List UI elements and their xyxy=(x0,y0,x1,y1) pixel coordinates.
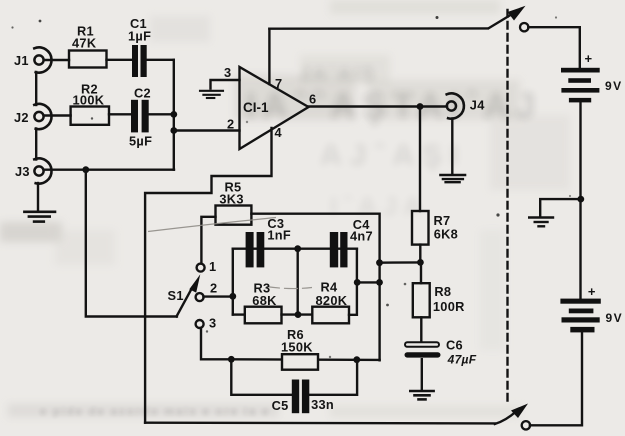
node pin2 junction xyxy=(170,127,177,134)
wire J2 to R2 xyxy=(44,114,71,116)
svg-text:1: 1 xyxy=(209,259,216,274)
wire link J1-J2 sleeve xyxy=(35,72,37,105)
svg-text:47µF: 47µF xyxy=(447,353,477,367)
wire junction to R8 xyxy=(420,262,422,283)
wire link J2-J3 sleeve xyxy=(35,129,37,160)
capacitor C2 xyxy=(131,100,149,133)
svg-text:100R: 100R xyxy=(433,299,465,314)
wire midpoint to ground xyxy=(540,199,581,216)
scan specks xyxy=(11,16,571,358)
dashed linkage line xyxy=(506,10,508,401)
node R6 left junction xyxy=(228,356,235,363)
scan crease artifact xyxy=(148,218,312,289)
wire node C to feedback rail xyxy=(357,281,379,283)
wire C1 to input node xyxy=(147,59,174,61)
wire S1 contact 3 down xyxy=(201,328,231,360)
svg-text:4: 4 xyxy=(275,125,283,140)
node R7/R8 junction xyxy=(417,259,424,266)
switch S2a arm xyxy=(489,6,528,32)
svg-text:1µF: 1µF xyxy=(128,29,151,44)
capacitor C5 xyxy=(292,380,310,414)
svg-text:C5: C5 xyxy=(272,398,289,413)
svg-text:3: 3 xyxy=(224,65,231,80)
svg-text:S1: S1 xyxy=(168,288,184,303)
wire R2 to C2 xyxy=(109,113,131,115)
switch S1 contact 2 xyxy=(196,293,204,301)
node battery midpoint xyxy=(577,196,584,203)
wire C6 to ground xyxy=(421,359,423,389)
wire pin 3 xyxy=(211,80,240,89)
node feedback/network junction xyxy=(376,279,383,286)
svg-text:100K: 100K xyxy=(73,93,105,108)
resistor R4 xyxy=(312,307,349,324)
wire R8 to C6 xyxy=(420,317,422,341)
svg-text:33n: 33n xyxy=(311,397,334,412)
svg-text:R8: R8 xyxy=(434,284,451,299)
wire junction to feedback rail xyxy=(380,261,421,264)
wire J4 to ground xyxy=(451,119,453,174)
svg-text:C2: C2 xyxy=(134,86,151,101)
wire J3 to ground xyxy=(37,183,39,211)
wire R5 to feedback right rail xyxy=(251,214,379,361)
svg-text:2: 2 xyxy=(227,117,234,132)
wire J3 node down to S1 xyxy=(86,170,177,317)
battery B2 xyxy=(560,299,600,333)
wire R6 rail xyxy=(231,358,379,361)
wire pin 7 xyxy=(268,29,270,84)
node C junction xyxy=(354,279,361,286)
svg-text:4n7: 4n7 xyxy=(350,229,373,244)
capacitor C4 xyxy=(330,232,348,267)
svg-text:J4: J4 xyxy=(470,98,485,113)
wire R7 from output xyxy=(419,107,421,212)
svg-text:AJˆAŞI: AJˆAŞI xyxy=(320,139,466,172)
wire C5 branch right xyxy=(309,360,357,395)
node feedback/R7 junction xyxy=(376,259,383,266)
svg-text:3: 3 xyxy=(209,316,216,331)
svg-text:1nF: 1nF xyxy=(267,228,291,243)
ground below J4 xyxy=(440,175,465,182)
svg-text:9V: 9V xyxy=(606,311,624,325)
wire pin 4 xyxy=(145,128,271,423)
svg-text:7: 7 xyxy=(275,76,282,91)
svg-text:+: + xyxy=(585,51,593,66)
resistor R3 xyxy=(245,307,282,324)
connector J3 xyxy=(34,158,51,183)
ground below J3 xyxy=(24,212,55,222)
node input vertical wire xyxy=(173,60,175,170)
resistor R6 xyxy=(282,354,318,370)
battery B1 xyxy=(561,68,600,103)
wire B1 to B2 rail xyxy=(579,102,581,298)
connector J4 xyxy=(447,93,464,118)
switch S2b xyxy=(495,404,530,430)
svg-text:J2: J2 xyxy=(14,110,29,125)
connector J1 xyxy=(34,47,51,72)
wire R3 to node B xyxy=(282,313,313,315)
ground below C6 xyxy=(410,391,433,399)
feedback top rail wire xyxy=(233,247,357,249)
ground at pin 3 xyxy=(200,91,223,98)
svg-text:2: 2 xyxy=(210,281,217,296)
node B bottom junction xyxy=(295,311,302,318)
resistor R2 xyxy=(71,107,109,125)
wire node A to R3 xyxy=(233,313,245,315)
capacitor C1 xyxy=(132,45,147,77)
wire switch to battery B1 xyxy=(528,27,580,68)
node J3 junction xyxy=(82,166,89,173)
resistor R1 xyxy=(69,51,107,68)
svg-text:5µF: 5µF xyxy=(129,134,152,149)
wire J3 to input node xyxy=(44,168,174,170)
wire B2 to bottom switch xyxy=(530,332,582,425)
resistor R7 xyxy=(412,211,429,245)
ground battery midpoint xyxy=(529,218,553,227)
switch S1 arm xyxy=(177,274,201,316)
resistor R5 xyxy=(216,206,252,225)
svg-text:9V: 9V xyxy=(605,79,623,93)
op-amp CI-1 xyxy=(240,67,309,149)
bottom rail wire xyxy=(145,422,495,425)
wire output pin 6 xyxy=(309,105,448,107)
node B top junction xyxy=(294,245,301,252)
node A vertical wire xyxy=(232,249,234,315)
wire pin2 xyxy=(174,129,240,131)
svg-text:C6: C6 xyxy=(446,338,463,353)
svg-text:CI-1: CI-1 xyxy=(243,100,269,115)
wire R1 to C1 xyxy=(107,59,133,61)
svg-text:68K: 68K xyxy=(252,293,277,308)
connector J2 xyxy=(34,104,51,129)
node output junction xyxy=(417,103,424,110)
svg-text:J1: J1 xyxy=(14,53,29,68)
wire R5 left to S1 contact 1 xyxy=(201,217,215,264)
svg-text:150K: 150K xyxy=(281,340,313,355)
svg-text:JAˆAIŞ: JAˆAIŞ xyxy=(300,64,377,84)
svg-text:3K3: 3K3 xyxy=(219,192,243,207)
svg-text:47K: 47K xyxy=(72,36,97,51)
node R6 right junction xyxy=(353,356,360,363)
svg-text:6: 6 xyxy=(309,92,316,107)
svg-text:+: + xyxy=(588,284,596,299)
node B vertical wire xyxy=(297,249,299,315)
capacitor C3 xyxy=(246,232,265,267)
svg-text:e pide de acordo mais e ore ia: e pide de acordo mais e ore ia e xyxy=(40,406,270,418)
capacitor C6 xyxy=(405,342,441,357)
wire C5 branch left xyxy=(231,359,291,395)
switch S1 contact 3 xyxy=(196,320,204,328)
node C2 junction xyxy=(170,111,177,118)
wire S1 contact 2 to node A xyxy=(203,295,232,297)
svg-text:820K: 820K xyxy=(316,293,348,308)
svg-text:6K8: 6K8 xyxy=(434,227,458,242)
wire R7 bottom xyxy=(419,245,421,263)
node C vertical wire xyxy=(349,249,357,315)
wire C2 to input node xyxy=(149,113,174,115)
wire J1 to R1 xyxy=(44,59,69,61)
top rail wire xyxy=(269,27,487,30)
switch S1 contact 1 xyxy=(197,264,205,272)
svg-text:J3: J3 xyxy=(15,164,30,179)
resistor R8 xyxy=(413,283,430,317)
node A junction xyxy=(229,293,236,300)
